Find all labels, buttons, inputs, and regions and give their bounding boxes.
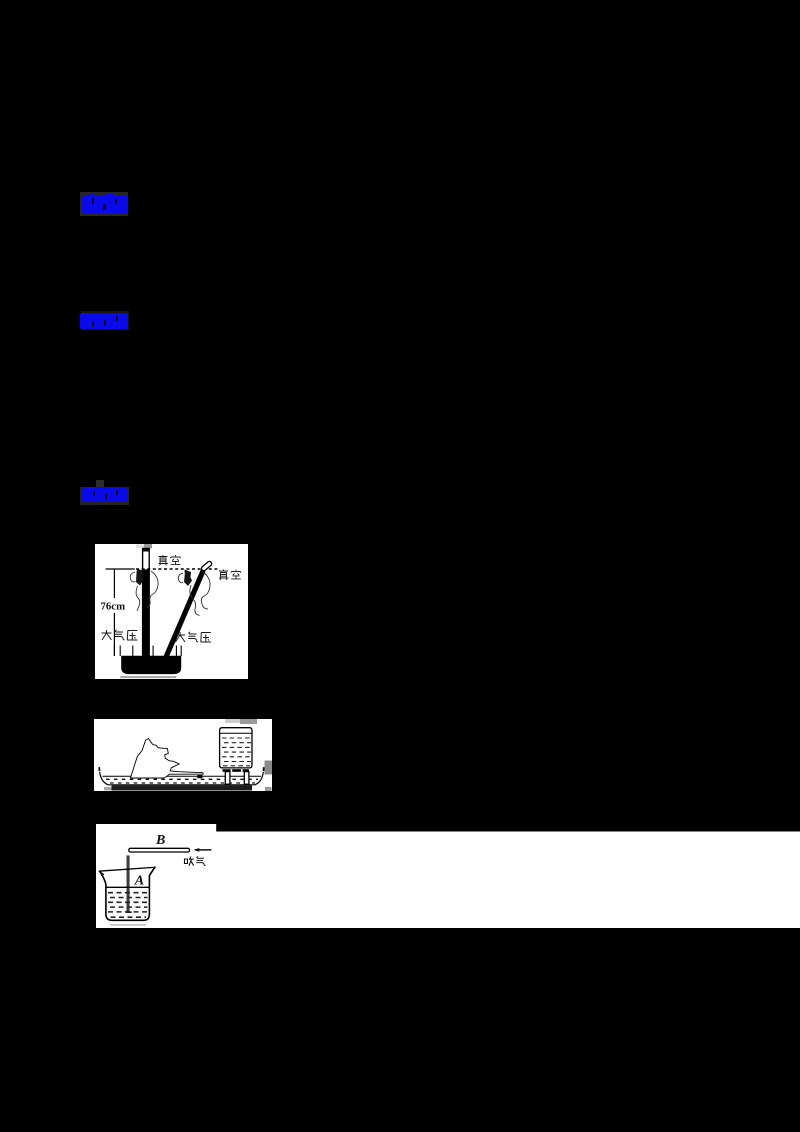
svg-text:76cm: 76cm: [101, 601, 126, 613]
svg-text:B: B: [155, 833, 165, 848]
svg-text:A: A: [134, 873, 144, 888]
